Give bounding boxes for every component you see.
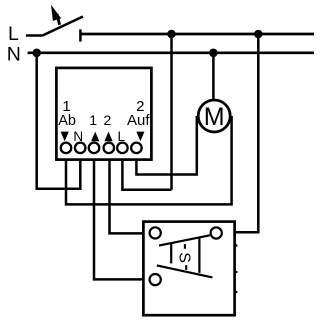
symbol up-triangle 1 <box>91 132 99 142</box>
junction dot N left <box>32 49 41 58</box>
terminal circle 1 <box>61 143 72 154</box>
terminal circle 6 <box>131 143 142 154</box>
switch S1 fixed contact tick <box>79 29 82 41</box>
svg-text:N: N <box>7 43 21 65</box>
symbol up-triangle 2 <box>104 132 112 142</box>
switch S1 lead wire <box>26 34 43 37</box>
pushbutton nub 1 <box>235 244 238 246</box>
pushbutton switch lower line <box>157 265 213 277</box>
pushbutton box S2 <box>143 222 234 316</box>
pushbutton label S rotated <box>175 252 192 263</box>
pushbutton switch prong 1 <box>170 243 172 263</box>
pushbutton terminal circle lower-left <box>150 274 161 285</box>
motor M1 circle <box>198 100 230 132</box>
pushbutton switch blade <box>159 235 210 245</box>
wire L drop 1 <box>170 34 173 190</box>
switch S1 actuation arrow <box>51 5 61 25</box>
terminal circle 2 <box>75 143 86 154</box>
svg-text:1: 1 <box>89 112 97 128</box>
wire N bus to motor top <box>212 53 215 100</box>
device box U1 (shutter timer insert) <box>56 68 151 160</box>
pushbutton label dash below S <box>185 265 187 270</box>
svg-text:Ab: Ab <box>58 113 76 129</box>
pushbutton terminal circle upper-right <box>211 227 222 238</box>
svg-text:S: S <box>175 252 192 263</box>
symbol down-triangle Ab <box>61 132 69 142</box>
pushbutton nub 2 <box>235 271 238 273</box>
junction dot L at x171 <box>167 30 176 39</box>
wire Ab terminal to motor right <box>66 116 232 204</box>
symbol down-triangle Auf <box>136 132 144 142</box>
svg-text:M: M <box>204 103 225 131</box>
junction dot L at x258 <box>254 30 263 39</box>
pushbutton terminal circle upper-left <box>150 227 161 238</box>
svg-text:2: 2 <box>104 112 112 128</box>
wire L bus <box>80 33 314 36</box>
terminal circle 5 <box>117 143 128 154</box>
svg-text:Auf: Auf <box>127 112 150 129</box>
wire N drop to N terminal <box>37 53 81 189</box>
terminal circle 3 <box>89 143 100 154</box>
pushbutton switch prong 2 <box>198 237 200 273</box>
pushbutton label dash above S <box>184 244 186 249</box>
wire Auf terminal to motor left <box>136 116 196 175</box>
terminal circle 4 <box>104 143 115 154</box>
wire N bus <box>28 51 314 54</box>
switch S1 blade <box>43 17 84 36</box>
wire terminal 1 to pushbutton lower-left <box>94 155 143 279</box>
svg-text:L: L <box>8 23 19 45</box>
pushbutton nub 3 <box>235 291 238 293</box>
wire L drop 2 to pushbutton right <box>235 34 258 232</box>
wire L terminal to L drop <box>122 155 171 190</box>
junction dot N at x213 <box>209 49 218 58</box>
wire terminal 2 to pushbutton upper-left <box>110 155 144 233</box>
